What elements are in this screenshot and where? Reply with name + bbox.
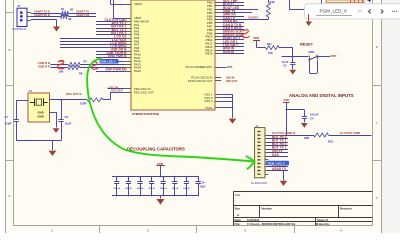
svg-text:C4: C4	[310, 116, 314, 120]
svg-text:10 pF: 10 pF	[5, 122, 12, 126]
svg-text:PGM_LED_0: PGM_LED_0	[100, 60, 116, 64]
svg-text:PPS: PPS	[227, 65, 233, 69]
svg-text:PB15: PB15	[205, 52, 212, 56]
svg-text:CLUTCH CMD: CLUTCH CMD	[340, 131, 361, 135]
svg-text:USART RX: USART RX	[76, 13, 90, 17]
svg-text:10 pF: 10 pF	[65, 122, 72, 126]
svg-text:J?: J?	[17, 4, 21, 8]
svg-text:32K OUT: 32K OUT	[226, 79, 238, 83]
svg-text:USB R P: USB R P	[38, 64, 50, 68]
svg-text:VSS 3: VSS 3	[204, 99, 213, 103]
svg-text:100 nF: 100 nF	[183, 188, 190, 190]
svg-text:VDD: VDD	[253, 36, 259, 40]
svg-text:390: 390	[59, 69, 64, 73]
svg-text:100 nF: 100 nF	[148, 188, 155, 190]
svg-text:ANALOG AND DIGITAL INPUTS: ANALOG AND DIGITAL INPUTS	[289, 93, 354, 98]
svg-text:PGM_LED_0: PGM_LED_0	[268, 161, 286, 165]
svg-text:DSP PWR EN: DSP PWR EN	[106, 68, 127, 72]
svg-text:C:\Users\.. MICROCONTROLLER S: C:\Users\.. MICROCONTROLLER SA..	[247, 222, 297, 226]
svg-text:OSC OUT: OSC OUT	[111, 89, 123, 93]
svg-text:C5: C5	[283, 64, 287, 68]
svg-text:R8: R8	[79, 72, 83, 76]
svg-text:100 nF: 100 nF	[125, 188, 132, 190]
svg-text:SL-3S00-S12S: SL-3S00-S12S	[251, 182, 267, 185]
svg-text:PC13-TAMPER-RTC: PC13-TAMPER-RTC	[186, 65, 213, 69]
svg-text:RESET: RESET	[300, 41, 314, 46]
svg-text:OSC OUT B: OSC OUT B	[66, 92, 82, 96]
svg-text:0R: 0R	[70, 9, 73, 12]
svg-text:100R: 100R	[80, 101, 86, 105]
svg-text:PC15-OSC32 OUT: PC15-OSC32 OUT	[188, 79, 213, 83]
svg-text:100 nF: 100 nF	[310, 113, 319, 117]
svg-text:PA15: PA15	[134, 69, 141, 73]
svg-text:10 nF: 10 nF	[282, 60, 289, 64]
svg-text:VSSA: VSSA	[205, 106, 213, 110]
svg-text:0R: 0R	[68, 18, 71, 21]
svg-text:RST: RST	[331, 54, 337, 58]
svg-text:20R: 20R	[304, 136, 309, 140]
svg-text:100 nF: 100 nF	[172, 188, 179, 190]
svg-text:100 nF: 100 nF	[160, 188, 167, 190]
svg-text:Number: Number	[262, 207, 273, 211]
svg-text:Y1: Y1	[29, 89, 33, 93]
svg-text:PD1-OSC OUT: PD1-OSC OUT	[134, 90, 154, 94]
svg-text:C8: C8	[65, 115, 69, 119]
svg-text:C7: C7	[5, 115, 9, 119]
svg-text:B: B	[376, 45, 378, 49]
svg-text:Size: Size	[235, 207, 241, 211]
svg-text:BOOT0: BOOT0	[249, 16, 259, 20]
svg-text:R11: R11	[267, 42, 272, 46]
svg-text:54K: 54K	[270, 0, 275, 4]
svg-text:PGM_LED_0: PGM_LED_0	[320, 9, 348, 14]
svg-text:Revision: Revision	[340, 207, 352, 211]
svg-text:100 nF: 100 nF	[137, 188, 144, 190]
svg-text:VDDA: VDDA	[134, 2, 142, 6]
svg-text:R10: R10	[328, 139, 333, 143]
svg-text:DECOUPLING CAPACITORS: DECOUPLING CAPACITORS	[127, 146, 185, 151]
svg-text:100 nF: 100 nF	[114, 188, 121, 190]
svg-text:C14: C14	[200, 180, 205, 184]
svg-text:File:: File:	[235, 222, 241, 226]
svg-text:1/2: 1/2	[358, 9, 363, 13]
svg-text:R7: R7	[84, 60, 88, 64]
svg-text:32K IN: 32K IN	[226, 75, 234, 79]
svg-text:15K: 15K	[268, 51, 273, 55]
svg-text:B: B	[8, 48, 10, 52]
svg-text:Title: Title	[235, 193, 241, 197]
svg-text:SW1: SW1	[309, 50, 316, 54]
svg-text:GND: GND	[38, 115, 44, 119]
svg-text:Drawn By:: Drawn By:	[316, 222, 330, 226]
svg-text:USART RX B: USART RX B	[34, 13, 50, 17]
svg-text:VDD: VDD	[283, 98, 289, 102]
svg-text:10uF: 10uF	[200, 184, 206, 188]
svg-text:STM32F103C8T6/B: STM32F103C8T6/B	[132, 112, 160, 116]
svg-text:KL900101123: KL900101123	[12, 29, 27, 31]
